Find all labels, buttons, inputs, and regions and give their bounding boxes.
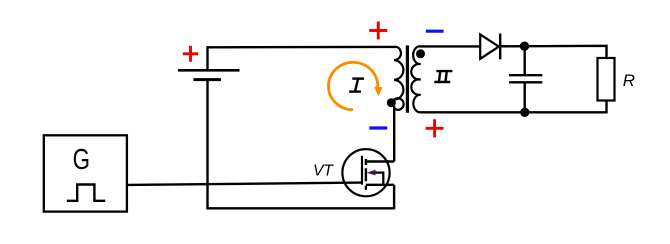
- svg-text:R: R: [623, 71, 635, 90]
- svg-text:VT: VT: [313, 162, 334, 179]
- svg-text:G: G: [73, 145, 90, 176]
